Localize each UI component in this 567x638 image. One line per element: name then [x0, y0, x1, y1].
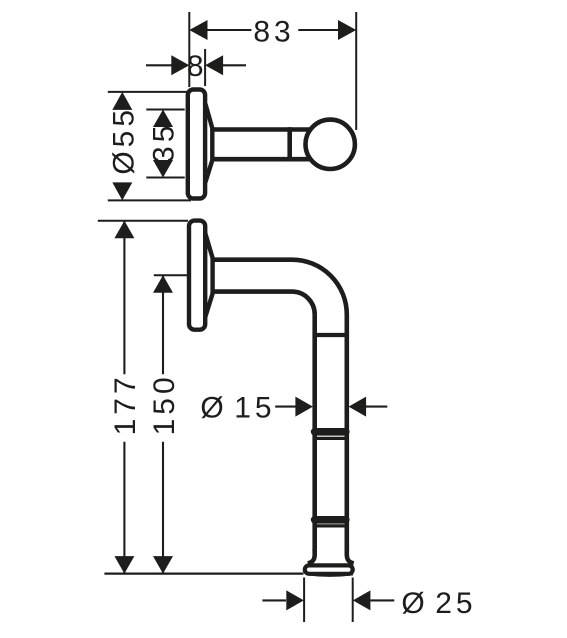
- top view: ball end: [306, 120, 355, 169]
- top view: stem top edge: [212, 127, 313, 132]
- dimension D55: top arrow (up): [112, 92, 132, 110]
- svg-text:Ø 25: Ø 25: [401, 587, 476, 620]
- dimension 83: right extension line: [355, 12, 357, 130]
- svg-text:8: 8: [187, 50, 208, 83]
- dimension 8: left arrow (outside, pointing right): [171, 55, 189, 75]
- top view: stem bottom edge: [212, 157, 313, 162]
- dimension D25: left tail line: [262, 599, 286, 601]
- svg-text:Ø55: Ø55: [107, 106, 140, 175]
- dimension 150: top arrow (up): [153, 275, 173, 293]
- svg-text:177: 177: [109, 373, 142, 435]
- dimension 177: line upper segment: [123, 221, 125, 374]
- dimension 177: top extension line: [98, 220, 188, 222]
- dimension 8: right extension line: [204, 49, 206, 86]
- dimension D25: left arrow (pointing right): [286, 590, 304, 610]
- bottom view: wall plate (rosette): [189, 221, 205, 330]
- dimension 177: line lower segment: [123, 442, 125, 574]
- top view: cone top slant: [205, 104, 212, 128]
- bottom view: pipe outer contour (top edge + elbow + right edge): [213, 260, 347, 551]
- svg-text:83: 83: [253, 15, 294, 48]
- dimension 177: bottom arrow (down): [114, 556, 134, 574]
- dimension D15: left tail line: [275, 406, 297, 408]
- dimension D55: bottom extension line: [108, 199, 191, 201]
- dimension D25: right tail line: [370, 599, 394, 601]
- top view: wall plate (rosette): [188, 90, 205, 199]
- dimension 35: bottom extension line: [146, 177, 184, 179]
- bottom view: joint line under ring 1: [313, 437, 348, 440]
- dimension 150: line upper segment: [162, 276, 164, 375]
- dimension D25: right arrow (pointing left): [353, 590, 371, 610]
- bottom view: joint line under ring 2: [313, 524, 348, 527]
- bottom view: ring collar 1: [311, 428, 350, 436]
- bottom view: cone bottom slant: [205, 294, 212, 318]
- dimension 8: left tail line: [146, 64, 172, 66]
- svg-text:Ø 15: Ø 15: [200, 391, 275, 424]
- bottom view: cone top slant: [205, 233, 212, 258]
- bottom view: elbow joint line: [313, 333, 349, 337]
- dimension D55: top extension line: [108, 91, 191, 93]
- dimension 83: line left segment: [207, 29, 251, 31]
- bottom view: base bottom curve: [307, 574, 353, 576]
- floor reference line: [104, 572, 303, 574]
- svg-text:35: 35: [147, 122, 180, 163]
- dimension D15: right tail line: [365, 406, 387, 408]
- bottom view: base flange: [305, 565, 353, 573]
- dimension 35: bottom arrow (down): [153, 160, 173, 178]
- dimension 35: top arrow (up): [153, 110, 173, 128]
- dimension D25: right extension line: [352, 578, 354, 623]
- dimension 150: bottom arrow (down): [153, 556, 173, 574]
- bottom view: ring collar 2: [311, 516, 350, 524]
- dimension 83: left arrow: [189, 20, 207, 40]
- svg-text:150: 150: [148, 373, 181, 435]
- bottom view: cone end cap line: [210, 258, 214, 294]
- dimension 177: top arrow (up): [114, 221, 134, 239]
- dimension 8: right arrow (outside, pointing left): [205, 55, 223, 75]
- top view: cone bottom slant: [205, 160, 212, 182]
- top view: stem joint line: [287, 127, 292, 161]
- dimension D55: bottom arrow (down): [112, 182, 132, 200]
- top view: cone end cap line: [210, 127, 214, 161]
- bottom view: base flare right: [347, 549, 354, 563]
- bottom view: base flare left: [308, 549, 315, 563]
- dimension D15: right arrow (pointing left): [349, 397, 367, 417]
- dimension 150: line lower segment: [162, 442, 164, 574]
- dimension D15: left arrow (pointing right): [295, 397, 313, 417]
- dimension D25: left extension line: [303, 578, 305, 623]
- dimension 83: right arrow: [338, 20, 356, 40]
- bottom view: pipe inner contour (bottom edge + elbow + left edge): [213, 292, 315, 551]
- dimension 8: right tail line: [223, 64, 246, 66]
- dimension 83: line right segment: [298, 29, 338, 31]
- dimension 35: top extension line: [146, 109, 184, 111]
- dimension 83: left extension line: [188, 12, 190, 87]
- dimension 150: top extension line: [154, 274, 188, 276]
